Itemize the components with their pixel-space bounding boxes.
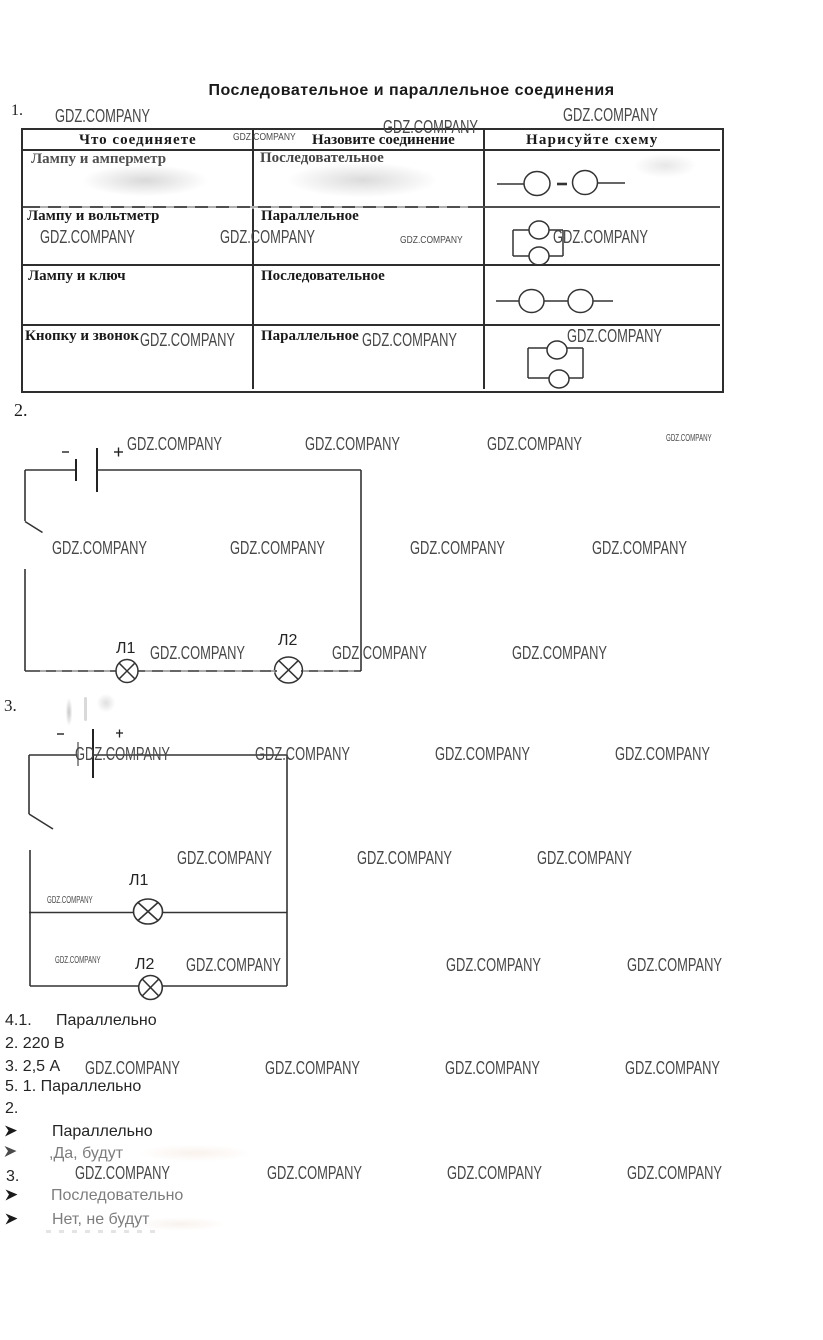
- battery long plate (positive): [92, 729, 94, 778]
- wire right side: [360, 470, 362, 671]
- row4 col1: [25, 328, 139, 345]
- lamp circle 2: [573, 171, 598, 195]
- battery short plate (negative): [75, 459, 77, 481]
- scan smudge table row1 middle: [255, 155, 470, 205]
- faded dashes on row1 divider: [40, 206, 470, 209]
- scan smudge table row1 left: [55, 158, 235, 203]
- peach smudge near Da budut: [120, 1142, 270, 1164]
- lamp L2: [275, 657, 303, 683]
- section label 3.: [4, 696, 17, 716]
- header: Нарисуйте схему: [526, 132, 659, 149]
- switch blade: [29, 814, 53, 829]
- row3 col1: [28, 268, 126, 285]
- header: Назовите соединение: [312, 132, 455, 149]
- top branch wire: [513, 229, 529, 231]
- wire between lamps: [138, 670, 277, 672]
- row2 col1: [27, 208, 159, 225]
- table horizontal line row2/row3: [23, 264, 720, 266]
- wire left down to switch: [28, 755, 30, 814]
- wire left down to switch: [24, 470, 26, 521]
- label L1 circuit3: [129, 872, 148, 890]
- top branch right: [567, 347, 583, 349]
- faded dashes on circuit2 bottom wire: [40, 670, 120, 673]
- top branch wire right: [549, 229, 563, 231]
- minus sign: [62, 451, 69, 453]
- battery long plate (positive): [96, 448, 98, 492]
- lamp circle bottom: [549, 370, 569, 388]
- streak2 above circuit3 battery: [93, 690, 119, 716]
- bottom branch right: [569, 377, 583, 379]
- battery short plate (negative, faded): [77, 742, 79, 766]
- wire left lower: [24, 569, 26, 671]
- wire left lower: [29, 850, 31, 986]
- right vertical wire: [582, 348, 584, 378]
- wire top left segment: [29, 754, 78, 756]
- scan smudge table row1 right: [620, 148, 710, 183]
- table frame: [21, 128, 724, 393]
- left vertical wire: [512, 230, 514, 256]
- lamp L2: [139, 976, 163, 1000]
- watermarks: [55, 106, 150, 127]
- lamp circle 1: [524, 172, 550, 196]
- wire bottom to lamp L1: [25, 670, 116, 672]
- top branch wire: [528, 347, 547, 349]
- table horizontal line row3/row4: [23, 324, 720, 326]
- switch blade: [25, 522, 43, 533]
- wire dash between: [557, 183, 567, 186]
- wire bottom right: [301, 670, 361, 672]
- table vertical line col1/col2: [252, 130, 254, 389]
- left vertical wire: [527, 348, 529, 378]
- wire: [497, 183, 524, 185]
- label L2 circuit2: [278, 632, 297, 650]
- wire top to right corner: [93, 754, 287, 756]
- label L2 circuit3: [135, 956, 154, 974]
- section label 1.: [11, 102, 23, 120]
- row1 col2: [260, 150, 384, 167]
- wire right side: [286, 755, 288, 986]
- row3 col2: [261, 268, 385, 285]
- branch L2 wire right: [162, 985, 287, 987]
- lamp circle top: [547, 341, 567, 359]
- answers text block: [5, 1012, 32, 1030]
- branch L1 wire right: [162, 912, 287, 914]
- row2 col2: [261, 208, 359, 225]
- lamp circle bottom: [529, 247, 549, 265]
- wire: [496, 300, 519, 302]
- plus sign: [114, 448, 123, 457]
- bottom branch wire: [528, 377, 549, 379]
- right vertical wire: [562, 230, 564, 256]
- wire between: [544, 300, 568, 302]
- smudge above circuit3 battery: [64, 693, 74, 731]
- minus sign: [57, 733, 64, 735]
- table horizontal line under header: [23, 149, 720, 151]
- header: Что соединяете: [79, 132, 197, 149]
- section label 2.: [14, 400, 28, 421]
- lamp circle top: [529, 221, 549, 239]
- plus sign: [116, 730, 123, 738]
- wire top: battery to right corner: [97, 469, 361, 471]
- wire: [593, 300, 613, 302]
- faint specks bottom left: [46, 1230, 161, 1233]
- lamp circle 2: [568, 290, 593, 313]
- wire top left to battery: [25, 469, 76, 471]
- row4 col2: [261, 328, 359, 345]
- peach smudge below Net ne budut: [120, 1215, 240, 1233]
- label L1 circuit2: [116, 640, 135, 658]
- bottom branch wire: [513, 255, 529, 257]
- table horizontal line row1/row2: [23, 206, 720, 208]
- lamp L1: [134, 899, 163, 924]
- bottom branch wire right: [549, 255, 563, 257]
- wire: [598, 182, 625, 184]
- lamp L1: [116, 660, 138, 683]
- lamp circle 1: [519, 290, 544, 313]
- table vertical line col2/col3: [483, 130, 485, 389]
- row1 col1: [31, 151, 166, 168]
- branch L2 wire left: [30, 985, 139, 987]
- title: [0, 82, 823, 100]
- streak above circuit3 battery: [84, 697, 87, 721]
- branch L1 wire left: [29, 912, 134, 914]
